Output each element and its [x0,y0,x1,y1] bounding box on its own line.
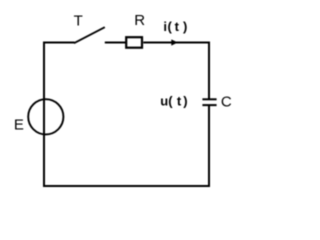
svg-text:C: C [221,93,232,110]
source E circle [28,99,63,134]
svg-text:E: E [14,117,24,134]
wire right vertical from top-right corner to capacitor top plate [208,42,210,99]
wire resistor to top-right corner [143,42,210,44]
svg-text:i(t): i(t) [163,19,187,34]
wire top-left segment from corner to switch hinge [43,42,75,44]
capacitor C top plate [202,98,216,100]
capacitor C bottom plate [202,104,216,106]
switch T blade [74,27,105,43]
wire switch contact to resistor [105,42,126,44]
arrowhead for current i(t) [171,39,178,45]
wire left vertical from top-left corner through source to bottom-left corner [43,42,45,188]
resistor R box [126,37,142,48]
wire bottom from left corner to right corner [43,185,210,187]
svg-text:R: R [134,12,145,29]
svg-text:T: T [74,13,83,30]
wire capacitor bottom plate to bottom-right corner [208,105,210,187]
svg-text:u(t): u(t) [160,94,187,109]
